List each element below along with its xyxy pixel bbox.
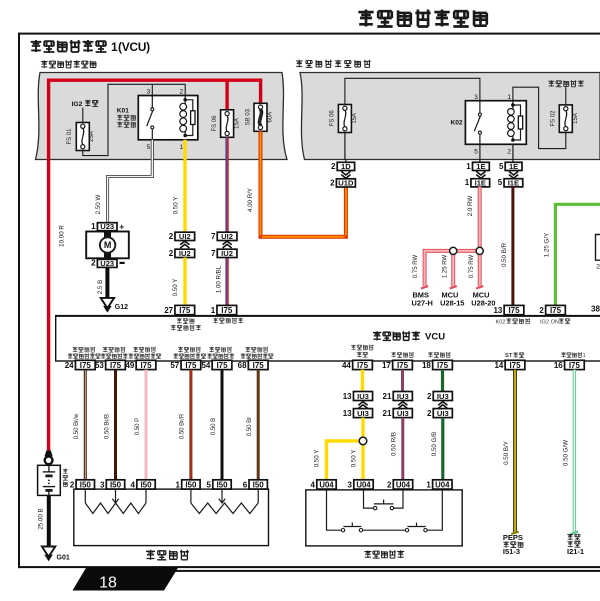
svg-text:13: 13 (493, 306, 502, 315)
svg-text:18: 18 (422, 361, 431, 370)
svg-text:0.50 Br/B: 0.50 Br/B (104, 414, 110, 439)
svg-text:16: 16 (554, 361, 563, 370)
svg-text:IU3: IU3 (397, 392, 409, 401)
svg-text:2: 2 (70, 480, 75, 489)
svg-text:6: 6 (243, 480, 248, 489)
svg-text:2: 2 (330, 178, 335, 187)
svg-text:U23: U23 (100, 259, 114, 268)
svg-text:U28-15: U28-15 (440, 298, 464, 307)
svg-text:I50: I50 (253, 481, 265, 490)
svg-text:2.50 W: 2.50 W (95, 195, 102, 215)
svg-text:1: 1 (507, 94, 511, 101)
svg-text:2: 2 (91, 259, 96, 268)
svg-text:1E: 1E (476, 162, 485, 171)
svg-text:14: 14 (494, 361, 503, 370)
svg-text:I75: I75 (221, 306, 233, 315)
svg-text:13: 13 (343, 392, 352, 401)
svg-text:I75: I75 (216, 361, 228, 370)
svg-text:0.50 B/R: 0.50 B/R (501, 242, 508, 267)
svg-text:0.50 G/B: 0.50 G/B (431, 432, 438, 456)
svg-text:0.50 Y: 0.50 Y (350, 450, 357, 468)
svg-text:17: 17 (382, 361, 391, 370)
svg-text:53: 53 (95, 361, 104, 370)
svg-text:FS 06: FS 06 (330, 110, 336, 127)
svg-text:I75: I75 (550, 306, 562, 315)
svg-text:0.50 P: 0.50 P (135, 418, 141, 435)
svg-text:2: 2 (427, 392, 432, 401)
svg-text:3: 3 (100, 480, 105, 489)
svg-text:I50: I50 (140, 481, 152, 490)
svg-text:38: 38 (591, 305, 600, 314)
svg-text:3: 3 (348, 480, 353, 489)
svg-text:I51-3: I51-3 (503, 547, 520, 556)
svg-text:2: 2 (331, 162, 336, 171)
svg-text:IG2 ON: IG2 ON (540, 319, 559, 325)
svg-text:2: 2 (180, 89, 184, 96)
svg-text:5: 5 (499, 162, 504, 171)
svg-text:2: 2 (169, 232, 174, 241)
svg-text:I50: I50 (185, 481, 197, 490)
svg-text:I21-1: I21-1 (567, 547, 584, 556)
svg-text:U1D: U1D (338, 178, 354, 187)
svg-text:21: 21 (383, 392, 392, 401)
svg-text:3: 3 (147, 89, 151, 96)
svg-text:U04: U04 (396, 481, 411, 490)
svg-text:I50: I50 (80, 481, 92, 490)
svg-text:57: 57 (170, 361, 179, 370)
svg-text:I75: I75 (437, 361, 449, 370)
svg-text:ST: ST (505, 353, 513, 359)
svg-text:1.00 R/BL: 1.00 R/BL (215, 265, 222, 293)
svg-text:5: 5 (147, 144, 151, 151)
svg-text:3: 3 (474, 94, 478, 101)
svg-text:18: 18 (99, 575, 117, 592)
svg-text:1: 1 (466, 162, 471, 171)
svg-text:I75: I75 (185, 361, 197, 370)
svg-text:UI3: UI3 (437, 409, 449, 418)
svg-text:1.25 G/Y: 1.25 G/Y (543, 233, 550, 257)
svg-text:68: 68 (238, 361, 247, 370)
svg-text:PEPS: PEPS (503, 533, 523, 542)
svg-text:K02: K02 (496, 319, 506, 325)
svg-text:I75: I75 (397, 361, 409, 370)
svg-text:0.50 Y: 0.50 Y (172, 279, 179, 297)
svg-text:0.50 B/Y: 0.50 B/Y (503, 441, 510, 465)
svg-text:U27-H: U27-H (412, 298, 433, 307)
svg-text:UI3: UI3 (397, 409, 409, 418)
svg-text:2: 2 (169, 249, 174, 258)
svg-text:10.00 R: 10.00 R (59, 225, 66, 247)
svg-text:IU2: IU2 (179, 249, 191, 258)
svg-text:4.00 R/Y: 4.00 R/Y (247, 188, 254, 212)
svg-text:2: 2 (427, 409, 432, 418)
svg-text:I75: I75 (140, 361, 152, 370)
svg-text:2.0 RW: 2.0 RW (467, 196, 474, 217)
svg-text:15A: 15A (352, 113, 358, 124)
svg-text:I75: I75 (569, 361, 581, 370)
svg-text:5: 5 (474, 149, 478, 156)
svg-text:0.50 Y: 0.50 Y (172, 197, 179, 215)
svg-text:I75: I75 (80, 361, 92, 370)
svg-text:15A: 15A (573, 113, 579, 124)
svg-text:1E: 1E (509, 162, 518, 171)
svg-text:4: 4 (311, 480, 316, 489)
svg-text:0.50 G/W: 0.50 G/W (562, 440, 569, 466)
svg-text:I1E: I1E (475, 178, 486, 187)
svg-text:54: 54 (201, 361, 210, 370)
svg-text:I75: I75 (253, 361, 265, 370)
svg-text:I75: I75 (357, 361, 369, 370)
svg-text:G01: G01 (57, 554, 70, 561)
svg-text:0.50 Br/w: 0.50 Br/w (74, 413, 80, 439)
svg-text:1.25 RW: 1.25 RW (442, 255, 448, 279)
svg-text:U23: U23 (100, 222, 114, 231)
svg-text:VCU: VCU (425, 332, 445, 343)
svg-text:7: 7 (211, 249, 216, 258)
svg-text:1: 1 (111, 40, 118, 54)
svg-text:IU3: IU3 (437, 392, 449, 401)
svg-text:G12: G12 (115, 304, 128, 311)
svg-text:2: 2 (387, 480, 392, 489)
svg-text:44: 44 (342, 361, 351, 370)
svg-text:K02: K02 (451, 120, 463, 127)
svg-text:UI2: UI2 (179, 232, 191, 241)
svg-text:25.00 B: 25.00 B (37, 508, 44, 529)
svg-text:UI2: UI2 (221, 232, 233, 241)
svg-text:0.75 RW: 0.75 RW (469, 255, 475, 279)
svg-text:I75: I75 (509, 361, 521, 370)
svg-text:2: 2 (596, 263, 600, 270)
svg-text:5: 5 (498, 178, 503, 187)
svg-text:0.50 B: 0.50 B (211, 418, 217, 435)
svg-text:24: 24 (65, 361, 74, 370)
svg-text:1: 1 (426, 480, 431, 489)
svg-text:M: M (104, 240, 112, 250)
svg-text:0.50 Br/R: 0.50 Br/R (180, 413, 186, 439)
svg-text:IU3: IU3 (357, 392, 369, 401)
svg-text:I75: I75 (179, 306, 191, 315)
svg-text:+: + (119, 221, 124, 231)
svg-text:0.75 RW: 0.75 RW (413, 255, 419, 279)
svg-text:25A: 25A (89, 131, 95, 142)
svg-text:(VCU): (VCU) (118, 40, 150, 54)
svg-text:1: 1 (175, 480, 180, 489)
svg-text:4: 4 (131, 480, 136, 489)
svg-text:60A: 60A (267, 112, 273, 123)
svg-text:U04: U04 (356, 481, 371, 490)
svg-text:0.50 R/B: 0.50 R/B (391, 432, 398, 456)
svg-text:0.50 Y: 0.50 Y (314, 450, 321, 468)
svg-text:I50: I50 (110, 481, 122, 490)
svg-text:1: 1 (180, 144, 184, 151)
svg-text:FS 02: FS 02 (551, 110, 557, 127)
svg-text:I75: I75 (508, 306, 520, 315)
svg-text:IG2: IG2 (72, 101, 83, 108)
svg-text:7: 7 (211, 232, 216, 241)
svg-text:27: 27 (164, 306, 173, 315)
svg-text:U04: U04 (319, 481, 334, 490)
svg-text:13: 13 (343, 409, 352, 418)
svg-text:2: 2 (507, 149, 511, 156)
svg-text:49: 49 (125, 361, 134, 370)
svg-text:5: 5 (207, 480, 212, 489)
svg-text:1: 1 (211, 306, 216, 315)
svg-text:FS 01: FS 01 (67, 128, 73, 145)
svg-text:SB 03: SB 03 (246, 108, 252, 125)
svg-text:1: 1 (465, 178, 470, 187)
svg-text:15A: 15A (234, 118, 240, 129)
svg-text:1: 1 (91, 222, 96, 231)
svg-text:2: 2 (539, 306, 544, 315)
svg-text:UI3: UI3 (357, 409, 369, 418)
svg-text:U04: U04 (435, 481, 450, 490)
svg-text:0.50 Br: 0.50 Br (247, 417, 253, 436)
svg-text:I50: I50 (216, 481, 228, 490)
svg-text:IU2: IU2 (221, 249, 233, 258)
svg-text:1D: 1D (341, 162, 351, 171)
svg-text:K01: K01 (117, 108, 129, 115)
svg-text:2.5 B: 2.5 B (97, 280, 104, 294)
svg-text:1: 1 (583, 353, 586, 359)
svg-text:FS 06: FS 06 (212, 115, 218, 132)
svg-text:21: 21 (383, 409, 392, 418)
svg-text:U28-20: U28-20 (471, 298, 495, 307)
svg-text:I75: I75 (110, 361, 122, 370)
svg-text:I1E: I1E (508, 178, 519, 187)
